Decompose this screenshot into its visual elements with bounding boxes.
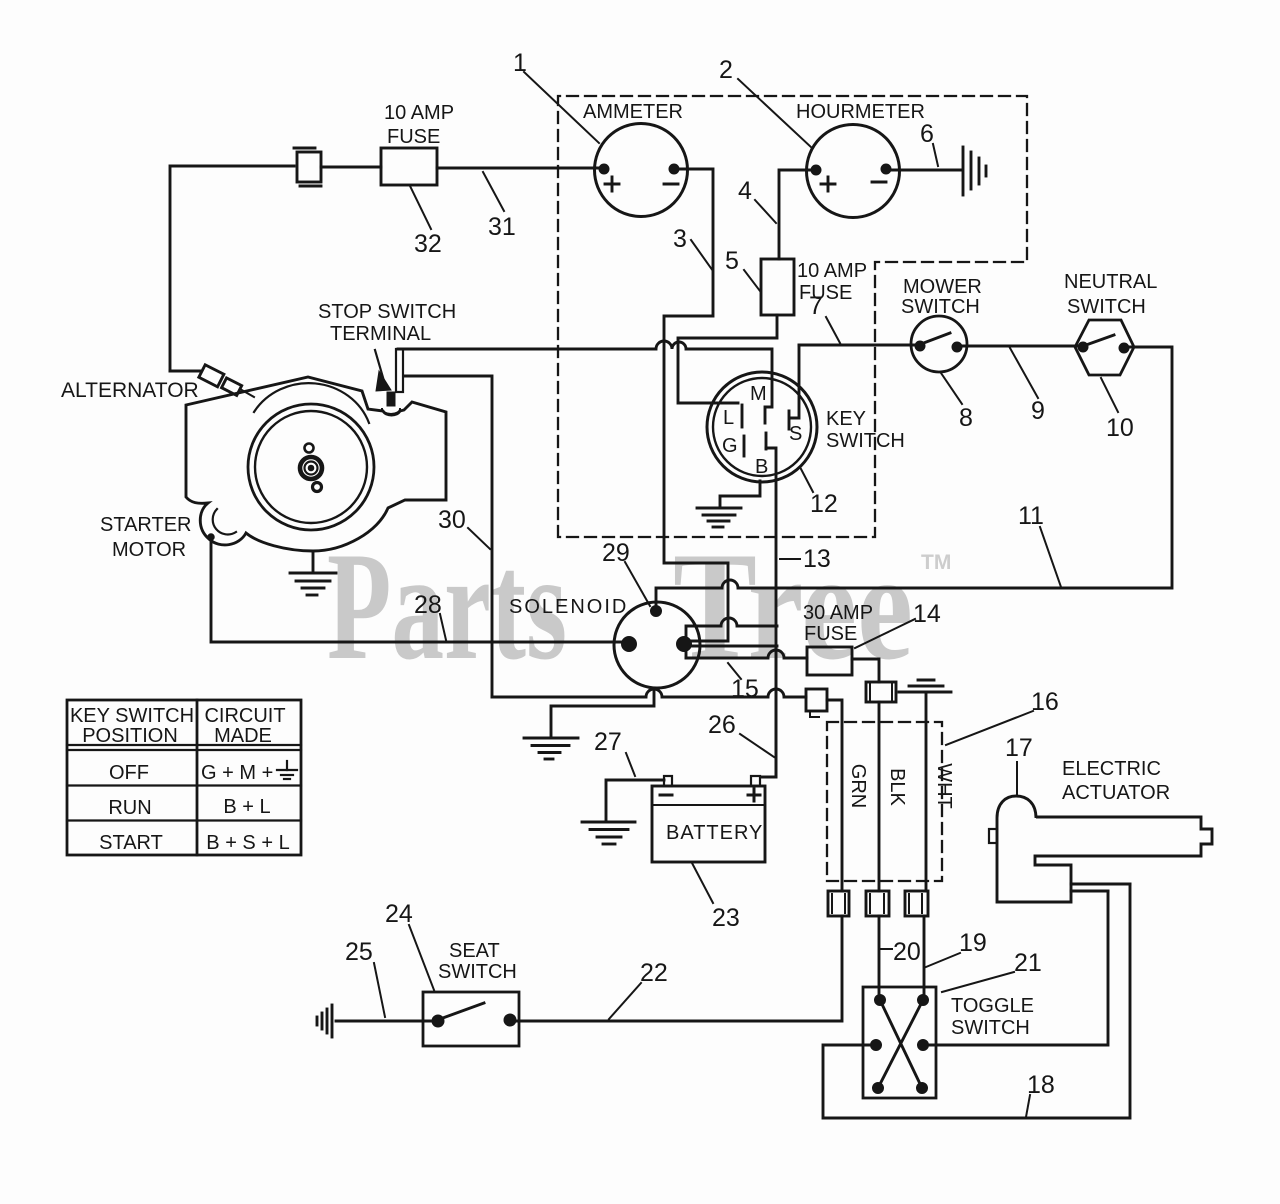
svg-text:G + M +: G + M + bbox=[201, 762, 273, 784]
battery minus sign bbox=[660, 794, 672, 797]
label 17 bbox=[1005, 734, 1033, 796]
stop switch terminal post bbox=[382, 349, 403, 414]
ground solenoid bbox=[524, 738, 578, 759]
seat switch lever bbox=[440, 1003, 484, 1019]
battery plus sign bbox=[748, 789, 760, 801]
solenoid right terminal bbox=[677, 637, 692, 652]
svg-text:SWITCH: SWITCH bbox=[1067, 296, 1146, 318]
wire fuse to BLK connector bbox=[852, 659, 879, 682]
ground WHT top bbox=[899, 680, 951, 692]
svg-text:ELECTRIC: ELECTRIC bbox=[1062, 758, 1161, 780]
wire fuse 5 to L terminal bbox=[678, 315, 777, 403]
label 14 bbox=[855, 600, 941, 648]
label 19 bbox=[926, 929, 987, 967]
neutral switch contacts bbox=[1078, 342, 1088, 352]
svg-text:2: 2 bbox=[719, 56, 733, 84]
svg-text:POSITION: POSITION bbox=[82, 725, 178, 747]
label 28 bbox=[414, 591, 446, 640]
wire 30 branch to GRN connector bbox=[492, 689, 806, 697]
label 20 bbox=[881, 938, 921, 966]
svg-text:FUSE: FUSE bbox=[799, 282, 852, 304]
svg-text:TERMINAL: TERMINAL bbox=[330, 323, 431, 345]
svg-text:WHT: WHT bbox=[933, 763, 955, 809]
dashed box 16 harness bbox=[827, 722, 942, 881]
svg-text:SWITCH: SWITCH bbox=[438, 961, 517, 983]
fuse F14 30 AMP bbox=[807, 647, 852, 675]
label 12 bbox=[801, 469, 838, 518]
wire 3 ammeter to solenoid bbox=[664, 169, 728, 641]
label 2 bbox=[719, 56, 812, 148]
electric actuator body bbox=[997, 796, 1212, 902]
pin G bbox=[722, 435, 744, 457]
engine outline bbox=[186, 377, 446, 551]
wire alternator to fuse bbox=[170, 166, 294, 371]
battery + wire 26 bbox=[775, 646, 778, 777]
label 5 bbox=[725, 247, 760, 291]
svg-text:TM: TM bbox=[921, 551, 951, 574]
svg-text:13: 13 bbox=[803, 545, 831, 573]
svg-text:KEY SWITCH: KEY SWITCH bbox=[70, 705, 194, 727]
toggle contacts bbox=[871, 995, 929, 1094]
svg-text:SOLENOID: SOLENOID bbox=[509, 596, 628, 618]
label 9 bbox=[1010, 348, 1045, 425]
battery bbox=[652, 786, 765, 862]
wire GRN connector down bbox=[827, 700, 842, 891]
battery minus post bbox=[664, 776, 672, 786]
svg-text:3: 3 bbox=[673, 225, 687, 253]
svg-text:OFF: OFF bbox=[109, 762, 149, 784]
ground key switch bbox=[697, 508, 741, 527]
svg-text:14: 14 bbox=[913, 600, 941, 628]
GRN top connector bbox=[806, 689, 827, 717]
label 30 bbox=[438, 506, 490, 549]
svg-text:BLK: BLK bbox=[886, 768, 908, 806]
wire BLK to toggle bbox=[878, 916, 881, 1000]
svg-text:10 AMP: 10 AMP bbox=[797, 260, 867, 282]
svg-text:Tree: Tree bbox=[673, 520, 913, 692]
fuse F5 10 AMP bbox=[761, 259, 794, 315]
ground seat switch bbox=[317, 1005, 332, 1037]
svg-text:11: 11 bbox=[1018, 502, 1044, 530]
svg-text:STOP SWITCH: STOP SWITCH bbox=[318, 301, 456, 323]
wire seat switch to ground bbox=[336, 1020, 432, 1023]
connector inline bbox=[294, 148, 321, 186]
mower switch contacts bbox=[915, 341, 925, 351]
label 1 bbox=[513, 49, 599, 143]
label 23 bbox=[692, 863, 740, 932]
flywheel inner ring bbox=[255, 411, 367, 523]
label 32 bbox=[410, 186, 442, 258]
svg-text:SWITCH: SWITCH bbox=[951, 1017, 1030, 1039]
svg-text:1: 1 bbox=[513, 49, 527, 77]
hourmeter + terminal bbox=[811, 165, 821, 175]
hub small circle bottom bbox=[313, 483, 322, 492]
wire 15 to 30A fuse bbox=[686, 650, 807, 658]
ground glyph in table bbox=[277, 761, 297, 779]
svg-text:M: M bbox=[750, 383, 767, 405]
svg-text:BATTERY: BATTERY bbox=[666, 822, 763, 844]
svg-text:30 AMP: 30 AMP bbox=[803, 602, 873, 624]
label 21 bbox=[942, 949, 1042, 992]
wire 11 neutral to solenoid coil bbox=[656, 347, 1172, 607]
svg-text:STARTER: STARTER bbox=[100, 514, 192, 536]
svg-text:MOTOR: MOTOR bbox=[112, 539, 186, 561]
label 13 bbox=[780, 545, 831, 573]
wire 4 hourmeter to fuse bbox=[779, 170, 811, 259]
svg-text:S: S bbox=[789, 423, 802, 445]
svg-text:FUSE: FUSE bbox=[804, 623, 857, 645]
svg-text:15: 15 bbox=[731, 675, 759, 703]
label 29 bbox=[602, 539, 650, 606]
label 15 bbox=[728, 663, 759, 703]
wire stop terminal to M terminal bbox=[398, 341, 772, 423]
fuse F32 10 AMP bbox=[381, 148, 437, 185]
label 3 bbox=[673, 225, 713, 271]
wire connector to fuse bbox=[321, 166, 381, 169]
svg-text:16: 16 bbox=[1031, 688, 1059, 716]
label 25 bbox=[345, 938, 385, 1017]
label 27 bbox=[594, 728, 635, 776]
svg-text:ACTUATOR: ACTUATOR bbox=[1062, 782, 1170, 804]
svg-text:17: 17 bbox=[1005, 734, 1033, 762]
BLK top connector bbox=[866, 682, 896, 702]
table key switch positions bbox=[67, 700, 301, 855]
toggle switch body bbox=[863, 987, 936, 1098]
wire toggle right to actuator bbox=[928, 891, 1108, 1045]
key switch inner bbox=[713, 378, 811, 476]
label 6 bbox=[920, 120, 938, 166]
battery minus wire bbox=[606, 780, 664, 821]
wire 7 S to mower switch bbox=[799, 344, 916, 347]
wire 28 starter to solenoid bbox=[211, 540, 622, 642]
wire 18 toggle loop left bbox=[823, 884, 1130, 1118]
ammeter - terminal bbox=[669, 164, 679, 174]
svg-text:ALTERNATOR: ALTERNATOR bbox=[61, 379, 199, 402]
svg-text:32: 32 bbox=[414, 230, 442, 258]
pin L bbox=[723, 405, 742, 429]
label 8 bbox=[941, 373, 973, 432]
toggle cross wires bbox=[878, 1000, 923, 1088]
svg-text:6: 6 bbox=[920, 120, 934, 148]
svg-text:CIRCUIT: CIRCUIT bbox=[204, 705, 285, 727]
WHT bottom connector bbox=[905, 891, 928, 916]
svg-text:FUSE: FUSE bbox=[387, 126, 440, 148]
svg-text:B + L: B + L bbox=[223, 796, 270, 818]
svg-text:KEY: KEY bbox=[826, 408, 866, 430]
svg-text:MOWER: MOWER bbox=[903, 276, 982, 298]
shroud arc bbox=[254, 383, 369, 423]
wire right terminal to battery net bbox=[691, 645, 777, 648]
svg-text:MADE: MADE bbox=[214, 725, 272, 747]
wire 30 stop terminal down bbox=[404, 376, 492, 697]
alternator plug bbox=[170, 365, 254, 397]
wire 9 mower to neutral bbox=[962, 345, 1078, 348]
key switch outer bbox=[707, 372, 817, 482]
solenoid left terminal bbox=[622, 637, 637, 652]
neutral switch hexagon bbox=[1075, 320, 1134, 375]
svg-text:SWITCH: SWITCH bbox=[826, 430, 905, 452]
svg-text:25: 25 bbox=[345, 938, 373, 966]
hub small circle top bbox=[305, 444, 314, 453]
label 24 bbox=[385, 900, 434, 990]
solenoid coil terminal bbox=[651, 606, 662, 617]
label 7 bbox=[809, 292, 840, 343]
seat switch bbox=[423, 992, 519, 1046]
key switch ground wire bbox=[720, 481, 760, 508]
wire hourmeter to ground bbox=[891, 169, 962, 172]
ground battery bbox=[582, 822, 635, 844]
svg-text:B + S + L: B + S + L bbox=[206, 832, 289, 854]
engine ground bbox=[290, 551, 336, 595]
label 16 bbox=[946, 688, 1059, 745]
svg-text:AMMETER: AMMETER bbox=[583, 101, 683, 123]
svg-text:29: 29 bbox=[602, 539, 630, 567]
svg-text:21: 21 bbox=[1014, 949, 1042, 977]
seat switch contacts bbox=[432, 1015, 444, 1027]
svg-text:18: 18 bbox=[1027, 1071, 1055, 1099]
starter motor bump inner arc bbox=[213, 509, 236, 534]
starter terminal bbox=[208, 534, 214, 540]
pin B bbox=[755, 433, 768, 478]
actuator left tab bbox=[989, 829, 997, 843]
wire BLK through harness bbox=[878, 702, 881, 891]
svg-text:31: 31 bbox=[488, 213, 516, 241]
svg-text:10 AMP: 10 AMP bbox=[384, 102, 454, 124]
svg-text:GRN: GRN bbox=[847, 764, 869, 808]
neutral switch lever bbox=[1086, 335, 1114, 345]
svg-text:G: G bbox=[722, 435, 738, 457]
actuator lead wires bbox=[1071, 884, 1130, 891]
svg-text:26: 26 bbox=[708, 711, 736, 739]
label 22 bbox=[609, 959, 668, 1019]
svg-text:19: 19 bbox=[959, 929, 987, 957]
ammeter + terminal bbox=[599, 164, 609, 174]
label 26 bbox=[708, 711, 774, 757]
label 18 bbox=[1026, 1071, 1055, 1117]
wire GRN to seat switch (wire 22) bbox=[510, 916, 842, 1021]
wire WHT to toggle bbox=[923, 916, 926, 1000]
label 31 bbox=[483, 172, 516, 241]
hourmeter - terminal bbox=[881, 164, 891, 174]
arrow to terminal bbox=[375, 350, 391, 391]
svg-text:12: 12 bbox=[810, 490, 838, 518]
label 10 bbox=[1101, 378, 1134, 442]
svg-text:TOGGLE: TOGGLE bbox=[951, 995, 1034, 1017]
BLK bottom connector bbox=[866, 891, 889, 916]
hub rings bbox=[300, 457, 322, 479]
svg-text:START: START bbox=[99, 832, 163, 854]
svg-text:NEUTRAL: NEUTRAL bbox=[1064, 271, 1157, 293]
ammeter bbox=[595, 124, 688, 217]
wire jog B net bbox=[686, 618, 777, 658]
svg-text:9: 9 bbox=[1031, 397, 1045, 425]
svg-text:7: 7 bbox=[809, 292, 823, 320]
mower switch bbox=[911, 316, 967, 372]
svg-text:10: 10 bbox=[1106, 414, 1134, 442]
svg-text:SEAT: SEAT bbox=[449, 940, 500, 962]
svg-text:8: 8 bbox=[959, 404, 973, 432]
hourmeter bbox=[807, 125, 900, 218]
label 11 bbox=[1018, 502, 1061, 587]
svg-text:B: B bbox=[755, 456, 768, 478]
svg-text:22: 22 bbox=[640, 959, 668, 987]
svg-text:30: 30 bbox=[438, 506, 466, 534]
ground hourmeter bbox=[963, 147, 986, 195]
svg-text:RUN: RUN bbox=[108, 797, 151, 819]
svg-text:23: 23 bbox=[712, 904, 740, 932]
pin S bbox=[789, 345, 802, 445]
solenoid bbox=[614, 602, 700, 688]
svg-text:4: 4 bbox=[738, 177, 752, 205]
svg-text:24: 24 bbox=[385, 900, 413, 928]
svg-text:5: 5 bbox=[725, 247, 739, 275]
wire WHT down bbox=[925, 692, 928, 891]
wire 31 fuse to ammeter bbox=[437, 167, 600, 170]
svg-text:28: 28 bbox=[414, 591, 442, 619]
battery plus post bbox=[751, 776, 760, 786]
svg-text:SWITCH: SWITCH bbox=[901, 296, 980, 318]
flywheel outer ring bbox=[248, 404, 374, 530]
solenoid ground wire bbox=[551, 688, 654, 737]
wire B to battery bbox=[761, 448, 776, 777]
mower switch lever bbox=[921, 333, 950, 344]
svg-text:20: 20 bbox=[893, 938, 921, 966]
GRN bottom connector bbox=[828, 891, 849, 916]
svg-text:27: 27 bbox=[594, 728, 622, 756]
dashed box instrument panel bbox=[558, 96, 1027, 537]
svg-text:L: L bbox=[723, 407, 734, 429]
label 4 bbox=[738, 177, 776, 223]
svg-text:HOURMETER: HOURMETER bbox=[796, 101, 925, 123]
